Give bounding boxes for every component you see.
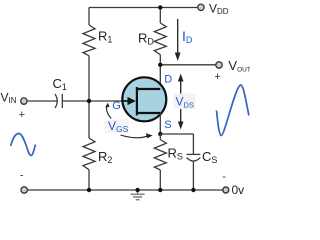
wire R1 bottom to gate node xyxy=(88,56,90,101)
node drain junction xyxy=(158,63,162,67)
resistor R2 xyxy=(83,138,95,170)
svg-text:ID: ID xyxy=(182,28,193,45)
svg-text:VDD: VDD xyxy=(209,2,229,17)
wire RS bottom to ground rail xyxy=(159,170,161,190)
svg-text:R1: R1 xyxy=(98,29,112,45)
transistor Q1 MOSFET body xyxy=(122,77,166,121)
transistor Q1 gate arrow xyxy=(123,100,128,102)
wire RD branch top xyxy=(159,8,161,24)
terminal VIN xyxy=(21,98,27,104)
node RS ground junction xyxy=(158,188,162,192)
resistor R1 xyxy=(83,25,95,56)
terminal 0V xyxy=(223,187,229,193)
wire RD bottom to drain node xyxy=(159,55,161,65)
terminal VIN minus xyxy=(21,187,27,193)
svg-text:VOUT: VOUT xyxy=(228,58,250,74)
node R2 ground junction xyxy=(87,188,91,192)
node gate junction xyxy=(87,99,91,103)
svg-text:R2: R2 xyxy=(98,149,112,165)
wire gate node down to R2 xyxy=(88,101,90,138)
resistor RS xyxy=(154,140,166,171)
svg-text:-: - xyxy=(20,170,24,182)
resistor RD xyxy=(154,23,166,55)
svg-text:-: - xyxy=(222,171,226,183)
wire CS bottom to ground rail xyxy=(192,161,194,190)
node source junction xyxy=(158,132,162,136)
svg-text:CS: CS xyxy=(202,149,217,165)
wire VIN to C1 xyxy=(27,100,58,102)
wire gate node to MOSFET gate xyxy=(89,100,123,102)
transistor Q1 bottom arm xyxy=(137,112,160,114)
wire C1 to gate node xyxy=(62,100,89,102)
transistor Q1 source lead xyxy=(159,113,161,134)
transistor Q1 gate bar xyxy=(136,87,138,115)
svg-text:G: G xyxy=(112,100,121,112)
label VDS xyxy=(174,94,196,110)
wire drain node to VOUT terminal xyxy=(160,64,216,66)
output sine wave xyxy=(217,85,249,136)
wire top rail VDD xyxy=(89,7,198,9)
svg-text:+: + xyxy=(214,71,220,83)
wire source node to CS branch xyxy=(160,133,193,135)
terminal VOUT xyxy=(216,62,222,68)
arrow VDS double-headed xyxy=(178,74,184,130)
svg-text:0v: 0v xyxy=(232,183,245,197)
svg-text:RD: RD xyxy=(138,30,154,46)
capacitor CS xyxy=(187,154,201,161)
label VGS xyxy=(105,120,130,134)
wire ground rail xyxy=(27,189,223,191)
arrow ID drain current xyxy=(175,19,181,61)
svg-text:RS: RS xyxy=(168,146,183,162)
arrow VGS curved xyxy=(105,103,111,119)
transistor Q1 top arm xyxy=(137,88,160,90)
wire left branch top (rail corner to R1) xyxy=(88,8,90,26)
arrow VGS to source curved xyxy=(121,133,153,138)
wire CS branch top xyxy=(192,134,194,154)
svg-text:+: + xyxy=(19,109,25,121)
input sine wave xyxy=(11,133,36,155)
ground symbol xyxy=(131,190,145,200)
capacitor C1 xyxy=(55,94,62,108)
svg-text:S: S xyxy=(164,119,171,131)
node ground symbol junction xyxy=(135,188,139,192)
svg-text:VIN: VIN xyxy=(1,91,17,106)
node CS ground junction xyxy=(191,188,195,192)
node top rail RD junction xyxy=(158,5,162,9)
terminal VDD xyxy=(198,4,204,10)
wire drain node down to MOSFET drain lead xyxy=(159,65,161,89)
svg-text:D: D xyxy=(164,73,172,85)
wire R2 bottom to ground rail xyxy=(88,170,90,190)
svg-text:C1: C1 xyxy=(53,76,67,92)
wire source node to RS xyxy=(159,134,161,140)
